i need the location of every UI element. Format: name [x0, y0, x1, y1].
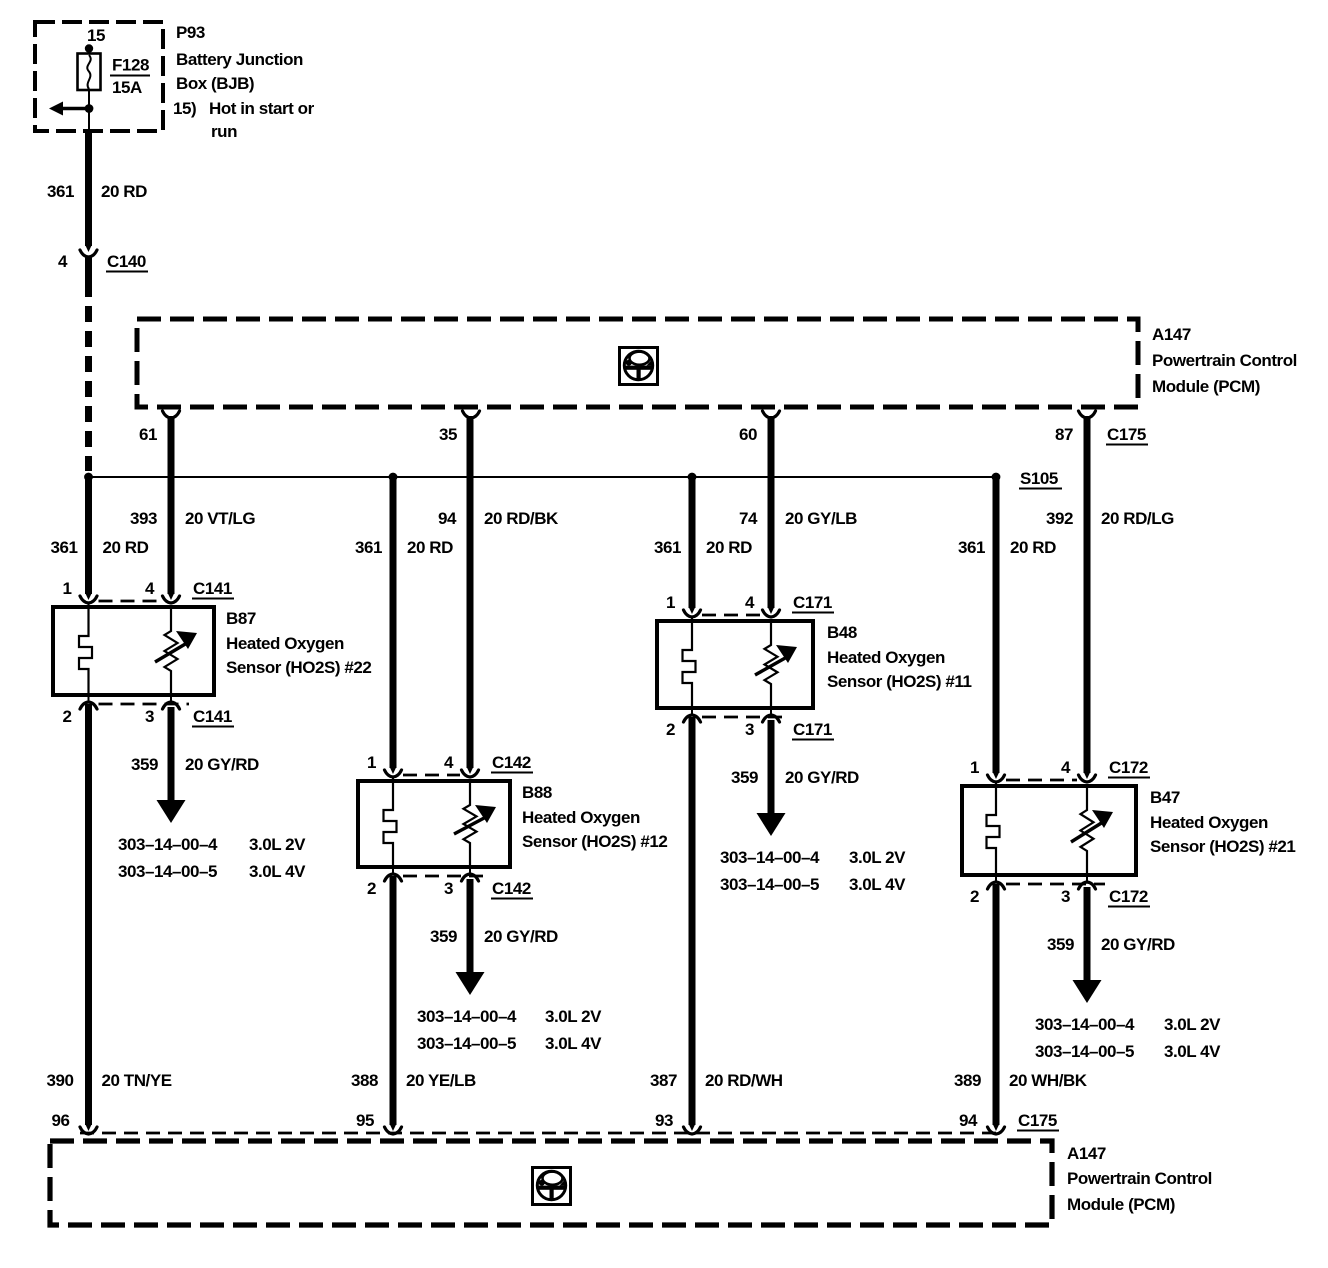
B88 pin number 3 — [444, 879, 453, 898]
svg-text:B48: B48 — [827, 623, 857, 642]
svg-text:Module (PCM): Module (PCM) — [1067, 1195, 1175, 1214]
svg-text:35: 35 — [439, 425, 457, 444]
B88 pin1 stub — [392, 777, 394, 781]
svg-text:2: 2 — [666, 720, 675, 739]
connector C175 label bottom — [1017, 1111, 1059, 1131]
B48 pin number 1 — [666, 593, 675, 612]
svg-text:74: 74 — [739, 509, 758, 528]
heated oxygen sensor B47 box — [962, 786, 1136, 875]
node at fuse top — [85, 44, 93, 52]
B87 pin3 stub — [170, 695, 172, 702]
wire 361 20 RD (BJB to C140) — [85, 131, 92, 246]
label A147 bottom — [1067, 1144, 1106, 1163]
svg-text:390: 390 — [46, 1071, 73, 1090]
ref 3.0L 2V at B48 — [849, 848, 906, 867]
svg-text:3.0L 2V: 3.0L 2V — [1164, 1015, 1221, 1034]
wire color 20 GY/LB — [785, 509, 857, 528]
svg-text:C171: C171 — [793, 593, 832, 612]
B47 pin number 2 — [970, 887, 979, 906]
connector C171 top label — [792, 593, 834, 613]
wire color 20 TN/YE — [102, 1071, 172, 1090]
connector C140 terminal — [80, 250, 97, 257]
B88 pin 4 connector — [462, 770, 479, 777]
male terminal B47 pin1 — [993, 772, 1000, 779]
circuit number 390 — [46, 1071, 73, 1090]
svg-text:15) Hot in start or: 15) Hot in start or — [173, 99, 315, 118]
B88 pin3 stub — [469, 867, 471, 874]
PCM pin number 94 — [959, 1111, 978, 1130]
svg-text:392: 392 — [1046, 509, 1073, 528]
svg-text:20 RD: 20 RD — [103, 538, 149, 557]
male terminal B47 pin4 — [1084, 772, 1091, 779]
wire color 20 GY/RD at B87 — [185, 755, 259, 774]
svg-text:Heated Oxygen: Heated Oxygen — [827, 648, 945, 667]
heated oxygen sensor B48 box — [657, 621, 813, 708]
svg-text:20 RD/WH: 20 RD/WH — [705, 1071, 783, 1090]
PCM pin number 35 — [439, 425, 457, 444]
ref 303-14-00-4 at B87 — [118, 835, 218, 854]
svg-text:20 GY/LB: 20 GY/LB — [785, 509, 857, 528]
connector C141 bottom label — [192, 707, 234, 727]
B87 pin number 2 — [62, 707, 71, 726]
svg-text:20 TN/YE: 20 TN/YE — [102, 1071, 172, 1090]
svg-text:303–14–00–5: 303–14–00–5 — [118, 862, 217, 881]
svg-text:359: 359 — [1047, 935, 1074, 954]
svg-text:A147: A147 — [1067, 1144, 1106, 1163]
splice dot col4 — [992, 473, 1001, 482]
B48 heater element — [683, 621, 696, 708]
male terminal at C140 — [85, 245, 92, 252]
svg-text:C142: C142 — [492, 879, 531, 898]
svg-text:303–14–00–4: 303–14–00–4 — [1035, 1015, 1135, 1034]
splice bus wire S105 — [89, 476, 997, 478]
connector C141 top dashed line — [99, 600, 162, 603]
ref 3.0L 4V at B88 — [545, 1034, 602, 1053]
svg-text:4: 4 — [745, 593, 755, 612]
circuit 359 at B88 — [430, 927, 457, 946]
sensor name B47 — [1150, 788, 1180, 807]
connector C171 bottom dashed line — [702, 716, 789, 719]
wire gauge/color 20 RD — [101, 182, 147, 201]
svg-text:3: 3 — [1061, 887, 1070, 906]
svg-text:20 YE/LB: 20 YE/LB — [406, 1071, 476, 1090]
svg-text:F128: F128 — [112, 56, 149, 75]
B88 pin number 1 — [367, 753, 376, 772]
B48 pin number 4 — [745, 593, 755, 612]
connector C172 bottom dashed line — [1006, 883, 1105, 886]
ref 3.0L 4V at B47 — [1164, 1042, 1221, 1061]
sensor name B48 — [827, 623, 857, 642]
svg-text:389: 389 — [954, 1071, 981, 1090]
PCM pin 61 connector — [163, 411, 180, 418]
svg-text:3.0L 2V: 3.0L 2V — [545, 1007, 602, 1026]
B47 pin number 1 — [970, 758, 979, 777]
svg-text:C171: C171 — [793, 720, 832, 739]
label run — [211, 122, 237, 141]
B88 pin number 2 — [367, 879, 376, 898]
B47 pin 3 connector — [1079, 882, 1096, 889]
heated oxygen sensor B87 box — [53, 607, 214, 695]
svg-text:2: 2 — [62, 707, 71, 726]
svg-text:361: 361 — [47, 182, 74, 201]
connector C142 top label — [491, 753, 533, 773]
ref 303-14-00-4 at B48 — [720, 848, 820, 867]
svg-text:B88: B88 — [522, 783, 552, 802]
sensor name B88 — [522, 783, 552, 802]
connector C142 bottom label — [491, 879, 533, 899]
B47 pin 2 connector — [988, 882, 1005, 889]
B87 pin 4 connector — [163, 596, 180, 603]
B47 pin3 stub — [1086, 875, 1088, 882]
ref 303-14-00-4 at B47 — [1035, 1015, 1135, 1034]
svg-text:359: 359 — [731, 768, 758, 787]
svg-text:run: run — [211, 122, 237, 141]
PCM pin number 95 — [356, 1111, 374, 1130]
connector C172 top label — [1108, 758, 1150, 778]
logo in top PCM box (manufacturer logo) — [620, 348, 658, 385]
wire color 20 RD/WH — [705, 1071, 783, 1090]
PCM pin 87 connector — [1079, 411, 1096, 418]
svg-text:3.0L 4V: 3.0L 4V — [545, 1034, 602, 1053]
fuse rating 15A — [112, 78, 142, 97]
svg-text:3.0L 4V: 3.0L 4V — [249, 862, 306, 881]
connector C142 top dashed line — [403, 774, 460, 777]
svg-text:B87: B87 — [226, 609, 256, 628]
PCM pin 93 connector — [684, 1127, 701, 1134]
svg-text:20 RD: 20 RD — [706, 538, 752, 557]
arrow to other circuits — [49, 102, 89, 116]
B87 pin2 stub — [88, 695, 90, 702]
PCM pin 95 connector — [385, 1127, 402, 1134]
B47 pin number 3 — [1061, 887, 1070, 906]
pin 15 label — [87, 26, 105, 45]
wire 389 20 WH/BK B47 to PCM — [993, 884, 1000, 1125]
B88 label line3 — [522, 832, 667, 851]
svg-text:2: 2 — [970, 887, 979, 906]
wire 361 20 RD to B48 pin 1 — [689, 477, 696, 608]
PCM pin number 93 — [655, 1111, 673, 1130]
svg-text:Sensor (HO2S) #11: Sensor (HO2S) #11 — [827, 672, 971, 691]
connector C171 bottom label — [792, 720, 834, 740]
male terminal PCM pin 94 — [993, 1124, 1000, 1131]
ref 3.0L 4V at B87 — [249, 862, 306, 881]
wire color 20 VT/LG — [185, 509, 255, 528]
svg-text:20 RD: 20 RD — [407, 538, 453, 557]
B88 pin number 4 — [444, 753, 454, 772]
svg-text:C141: C141 — [193, 707, 232, 726]
circuit number 393 — [130, 509, 157, 528]
B47 pin2 stub — [995, 875, 997, 882]
svg-text:C142: C142 — [492, 753, 531, 772]
wire color 20 WH/BK — [1009, 1071, 1088, 1090]
svg-text:361: 361 — [50, 538, 77, 557]
svg-text:4: 4 — [444, 753, 454, 772]
wire 387 20 RD/WH B48 to PCM — [689, 717, 696, 1125]
male terminal B87 pin1 — [85, 593, 92, 600]
svg-text:C141: C141 — [193, 579, 232, 598]
circuit number 94 — [438, 509, 457, 528]
wire color 20 GY/RD at B88 — [484, 927, 558, 946]
B87 pin 3 connector — [163, 702, 180, 709]
PCM pin number 60 — [739, 425, 757, 444]
bottom PCM connector dashed line — [80, 1132, 1000, 1135]
label Module (PCM) bottom — [1067, 1195, 1175, 1214]
B87 pin 1 connector — [80, 596, 97, 603]
svg-text:303–14–00–4: 303–14–00–4 — [720, 848, 820, 867]
connector C172 bottom label — [1108, 887, 1150, 907]
wire 74 20 GY/LB PCM to B48 pin 4 — [768, 416, 775, 608]
wire 393 20 VT/LG PCM to B87 pin 4 — [168, 416, 175, 594]
svg-text:20 RD: 20 RD — [1010, 538, 1056, 557]
label Module (PCM) top — [1152, 377, 1260, 396]
B48 pin 4 connector — [763, 610, 780, 617]
svg-text:3: 3 — [145, 707, 154, 726]
svg-text:S105: S105 — [1020, 469, 1058, 488]
B48 sensing element (variable resistor with arrow) — [755, 621, 797, 708]
svg-text:3: 3 — [444, 879, 453, 898]
circuit 361 at B88 — [355, 538, 382, 557]
svg-text:387: 387 — [650, 1071, 677, 1090]
B48 label line3 — [827, 672, 971, 691]
ground arrow from B87 — [157, 763, 186, 823]
svg-text:94: 94 — [438, 509, 457, 528]
wire 359 20 GY/RD from B87 pin 3 — [168, 707, 175, 765]
svg-text:Heated Oxygen: Heated Oxygen — [522, 808, 640, 827]
svg-text:4: 4 — [58, 252, 68, 271]
circuit 359 at B47 — [1047, 935, 1074, 954]
wire color 20 RD at B88 — [407, 538, 453, 557]
svg-text:20 GY/RD: 20 GY/RD — [484, 927, 558, 946]
wire color 20 GY/RD at B48 — [785, 768, 859, 787]
circuit number 389 — [954, 1071, 981, 1090]
label A147 top — [1152, 325, 1191, 344]
wire 94 20 RD/BK PCM to B88 pin 4 — [467, 416, 474, 768]
B47 pin1 stub — [995, 782, 997, 786]
circuit 359 at B48 — [731, 768, 758, 787]
svg-text:1: 1 — [367, 753, 376, 772]
ground arrow from B47 — [1073, 943, 1102, 1003]
svg-text:393: 393 — [130, 509, 157, 528]
wire color 20 RD at B48 — [706, 538, 752, 557]
svg-text:96: 96 — [51, 1111, 69, 1130]
B47 pin 1 connector — [988, 775, 1005, 782]
male terminal PCM pin 95 — [390, 1124, 397, 1131]
B88 label line2 — [522, 808, 640, 827]
label hot in start or — [173, 99, 315, 118]
male terminal B48 pin4 — [768, 607, 775, 614]
svg-text:Battery Junction: Battery Junction — [176, 50, 303, 69]
svg-text:60: 60 — [739, 425, 757, 444]
wire 392 20 RD/LG PCM to B47 pin 4 — [1084, 416, 1091, 773]
PCM pin number 96 — [51, 1111, 69, 1130]
svg-text:3.0L 2V: 3.0L 2V — [849, 848, 906, 867]
svg-text:2: 2 — [367, 879, 376, 898]
label Battery Junction — [176, 50, 303, 69]
wire 388 20 YE/LB B88 to PCM — [390, 876, 397, 1125]
male terminal B88 pin4 — [467, 767, 474, 774]
circuit number 388 — [351, 1071, 378, 1090]
logo in bottom PCM box (manufacturer logo) — [533, 1168, 571, 1205]
circuit number 74 — [739, 509, 758, 528]
svg-text:20 GY/RD: 20 GY/RD — [1101, 935, 1175, 954]
svg-text:B47: B47 — [1150, 788, 1180, 807]
svg-text:Heated Oxygen: Heated Oxygen — [1150, 813, 1268, 832]
PCM pin 60 connector — [763, 411, 780, 418]
svg-text:C172: C172 — [1109, 758, 1148, 777]
svg-text:15: 15 — [87, 26, 105, 45]
svg-text:93: 93 — [655, 1111, 673, 1130]
dashed wire 361 to splice — [85, 281, 92, 471]
svg-text:20 GY/RD: 20 GY/RD — [785, 768, 859, 787]
svg-text:388: 388 — [351, 1071, 378, 1090]
svg-text:20 RD/LG: 20 RD/LG — [1101, 509, 1174, 528]
svg-text:Sensor (HO2S) #21: Sensor (HO2S) #21 — [1150, 837, 1295, 856]
ref 303-14-00-4 at B88 — [417, 1007, 517, 1026]
fuse label F128 — [110, 56, 150, 76]
B48 pin1 stub — [691, 617, 693, 621]
svg-text:20 RD: 20 RD — [101, 182, 147, 201]
B47 pin 4 connector — [1079, 775, 1096, 782]
label Powertrain Control bottom — [1067, 1169, 1212, 1188]
circuit number 392 — [1046, 509, 1073, 528]
male terminal PCM pin 96 — [85, 1124, 92, 1131]
PCM pin number 61 — [139, 425, 157, 444]
svg-text:C175: C175 — [1107, 425, 1146, 444]
B87 pin1 stub — [88, 603, 90, 607]
connector C140 label — [106, 252, 148, 272]
wire 359 20 GY/RD from B47 pin 3 — [1084, 887, 1091, 945]
svg-text:61: 61 — [139, 425, 157, 444]
svg-text:359: 359 — [430, 927, 457, 946]
connector C172 top dashed line — [1006, 779, 1077, 782]
ref 3.0L 4V at B48 — [849, 875, 906, 894]
svg-text:Powertrain Control: Powertrain Control — [1067, 1169, 1212, 1188]
svg-text:Module (PCM): Module (PCM) — [1152, 377, 1260, 396]
B87 pin 2 connector — [80, 702, 97, 709]
B47 pin number 4 — [1061, 758, 1071, 777]
circuit 359 at B87 — [131, 755, 158, 774]
heated oxygen sensor B88 box — [358, 781, 510, 867]
svg-text:Sensor (HO2S) #12: Sensor (HO2S) #12 — [522, 832, 667, 851]
svg-text:303–14–00–5: 303–14–00–5 — [417, 1034, 516, 1053]
wire 390 20 TN/YE B87 to PCM — [85, 704, 92, 1125]
svg-text:94: 94 — [959, 1111, 978, 1130]
B87 label line2 — [226, 634, 344, 653]
B88 heater element — [384, 781, 397, 867]
B48 pin number 3 — [745, 720, 754, 739]
wire 361 20 RD to B87 pin 1 — [85, 477, 92, 594]
wire color 20 RD at B47 — [1010, 538, 1056, 557]
label Powertrain Control top — [1152, 351, 1297, 370]
wire color 20 RD/BK — [484, 509, 559, 528]
male terminal PCM pin 93 — [689, 1124, 696, 1131]
B87 pin number 4 — [145, 579, 155, 598]
svg-text:3.0L 4V: 3.0L 4V — [1164, 1042, 1221, 1061]
B87 sensing element (variable resistor with arrow) — [155, 607, 197, 695]
connector C141 top label — [192, 579, 234, 599]
B48 pin 2 connector — [684, 715, 701, 722]
svg-text:1: 1 — [970, 758, 979, 777]
B48 label line2 — [827, 648, 945, 667]
svg-text:359: 359 — [131, 755, 158, 774]
svg-text:3: 3 — [745, 720, 754, 739]
sensor name B87 — [226, 609, 256, 628]
ground arrow from B88 — [456, 935, 485, 995]
splice dot col2 — [389, 473, 398, 482]
B87 pin number 1 — [62, 579, 71, 598]
junction at arrow — [85, 104, 94, 113]
svg-text:20 VT/LG: 20 VT/LG — [185, 509, 255, 528]
B88 sensing element (variable resistor with arrow) — [454, 781, 496, 867]
B88 pin2 stub — [392, 867, 394, 874]
PCM pin 94 connector — [988, 1127, 1005, 1134]
ref 303-14-00-5 at B48 — [720, 875, 819, 894]
wire color 20 RD at B87 — [103, 538, 149, 557]
svg-text:87: 87 — [1055, 425, 1073, 444]
B88 pin 3 connector — [462, 874, 479, 881]
svg-text:1: 1 — [62, 579, 71, 598]
ref 303-14-00-5 at B88 — [417, 1034, 516, 1053]
PCM pin number 87 — [1055, 425, 1073, 444]
svg-text:4: 4 — [1061, 758, 1071, 777]
svg-text:1: 1 — [666, 593, 675, 612]
ref 3.0L 2V at B88 — [545, 1007, 602, 1026]
PCM A147 bottom box (dashed) — [50, 1141, 1052, 1225]
fuse F128 15A — [78, 54, 101, 91]
B47 label line3 — [1150, 837, 1295, 856]
svg-text:15A: 15A — [112, 78, 142, 97]
PCM A147 top box (dashed) — [137, 319, 1138, 407]
svg-text:Box (BJB): Box (BJB) — [176, 74, 254, 93]
svg-text:303–14–00–5: 303–14–00–5 — [720, 875, 819, 894]
circuit number 361 — [47, 182, 74, 201]
svg-text:Sensor (HO2S) #22: Sensor (HO2S) #22 — [226, 658, 371, 677]
B87 pin number 3 — [145, 707, 154, 726]
male terminal B48 pin1 — [689, 607, 696, 614]
wire color 20 RD/LG — [1101, 509, 1174, 528]
B88 pin 2 connector — [385, 874, 402, 881]
svg-text:P93: P93 — [176, 23, 205, 42]
svg-text:303–14–00–4: 303–14–00–4 — [118, 835, 218, 854]
ref 3.0L 2V at B87 — [249, 835, 306, 854]
svg-text:3.0L 2V: 3.0L 2V — [249, 835, 306, 854]
B48 pin2 stub — [691, 708, 693, 715]
wire fuse to box bottom — [88, 90, 90, 131]
B48 pin3 stub — [770, 708, 772, 715]
connector C171 top dashed line — [702, 614, 761, 617]
circuit number 387 — [650, 1071, 677, 1090]
svg-text:95: 95 — [356, 1111, 374, 1130]
wire 361 20 RD to B88 pin 1 — [390, 477, 397, 768]
B48 pin number 2 — [666, 720, 675, 739]
svg-text:303–14–00–4: 303–14–00–4 — [417, 1007, 517, 1026]
wire 361 20 RD to B47 pin 1 — [993, 477, 1000, 773]
B88 pin 1 connector — [385, 770, 402, 777]
ground arrow from B48 — [757, 776, 786, 836]
ref 3.0L 2V at B47 — [1164, 1015, 1221, 1034]
B48 pin 1 connector — [684, 610, 701, 617]
PCM pin 96 connector — [80, 1127, 97, 1134]
splice S105 label — [1019, 469, 1062, 489]
splice dot col3 — [688, 473, 697, 482]
splice dot col1 — [84, 473, 93, 482]
wire color 20 YE/LB — [406, 1071, 476, 1090]
B48 pin 3 connector — [763, 715, 780, 722]
wire 359 20 GY/RD from B88 pin 3 — [467, 879, 474, 937]
svg-text:361: 361 — [958, 538, 985, 557]
wire 359 20 GY/RD from B48 pin 3 — [768, 720, 775, 778]
svg-text:C175: C175 — [1018, 1111, 1057, 1130]
